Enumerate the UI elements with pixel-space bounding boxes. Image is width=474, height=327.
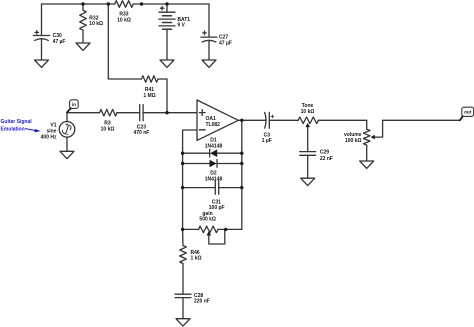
svg-text:1N4148: 1N4148 (205, 177, 223, 183)
svg-text:220 nF: 220 nF (194, 299, 210, 305)
svg-text:10 kΩ: 10 kΩ (117, 18, 131, 24)
svg-text:400 Hz: 400 Hz (41, 134, 57, 140)
svg-text:10 kΩ: 10 kΩ (89, 21, 103, 27)
svg-text:9 V: 9 V (177, 23, 185, 29)
svg-text:1 kΩ: 1 kΩ (191, 256, 202, 262)
svg-text:1N4148: 1N4148 (205, 143, 223, 149)
svg-text:470 nF: 470 nF (133, 130, 149, 136)
svg-text:500 kΩ: 500 kΩ (199, 217, 216, 223)
svg-text:TL082: TL082 (206, 122, 221, 128)
svg-text:47 µF: 47 µF (53, 39, 66, 45)
svg-text:10 kΩ: 10 kΩ (301, 109, 315, 115)
svg-text:22 nF: 22 nF (320, 156, 333, 162)
svg-text:1 MΩ: 1 MΩ (143, 93, 155, 99)
svg-text:in: in (72, 102, 76, 107)
svg-text:C29: C29 (320, 150, 329, 156)
svg-text:Emulation: Emulation (1, 127, 25, 133)
svg-text:47 µF: 47 µF (219, 40, 232, 46)
svg-text:Guitar Signal: Guitar Signal (1, 119, 33, 125)
svg-text:1 µF: 1 µF (262, 138, 272, 144)
svg-text:out: out (464, 110, 472, 115)
svg-text:10 kΩ: 10 kΩ (101, 126, 115, 132)
svg-text:100 kΩ: 100 kΩ (345, 138, 362, 144)
